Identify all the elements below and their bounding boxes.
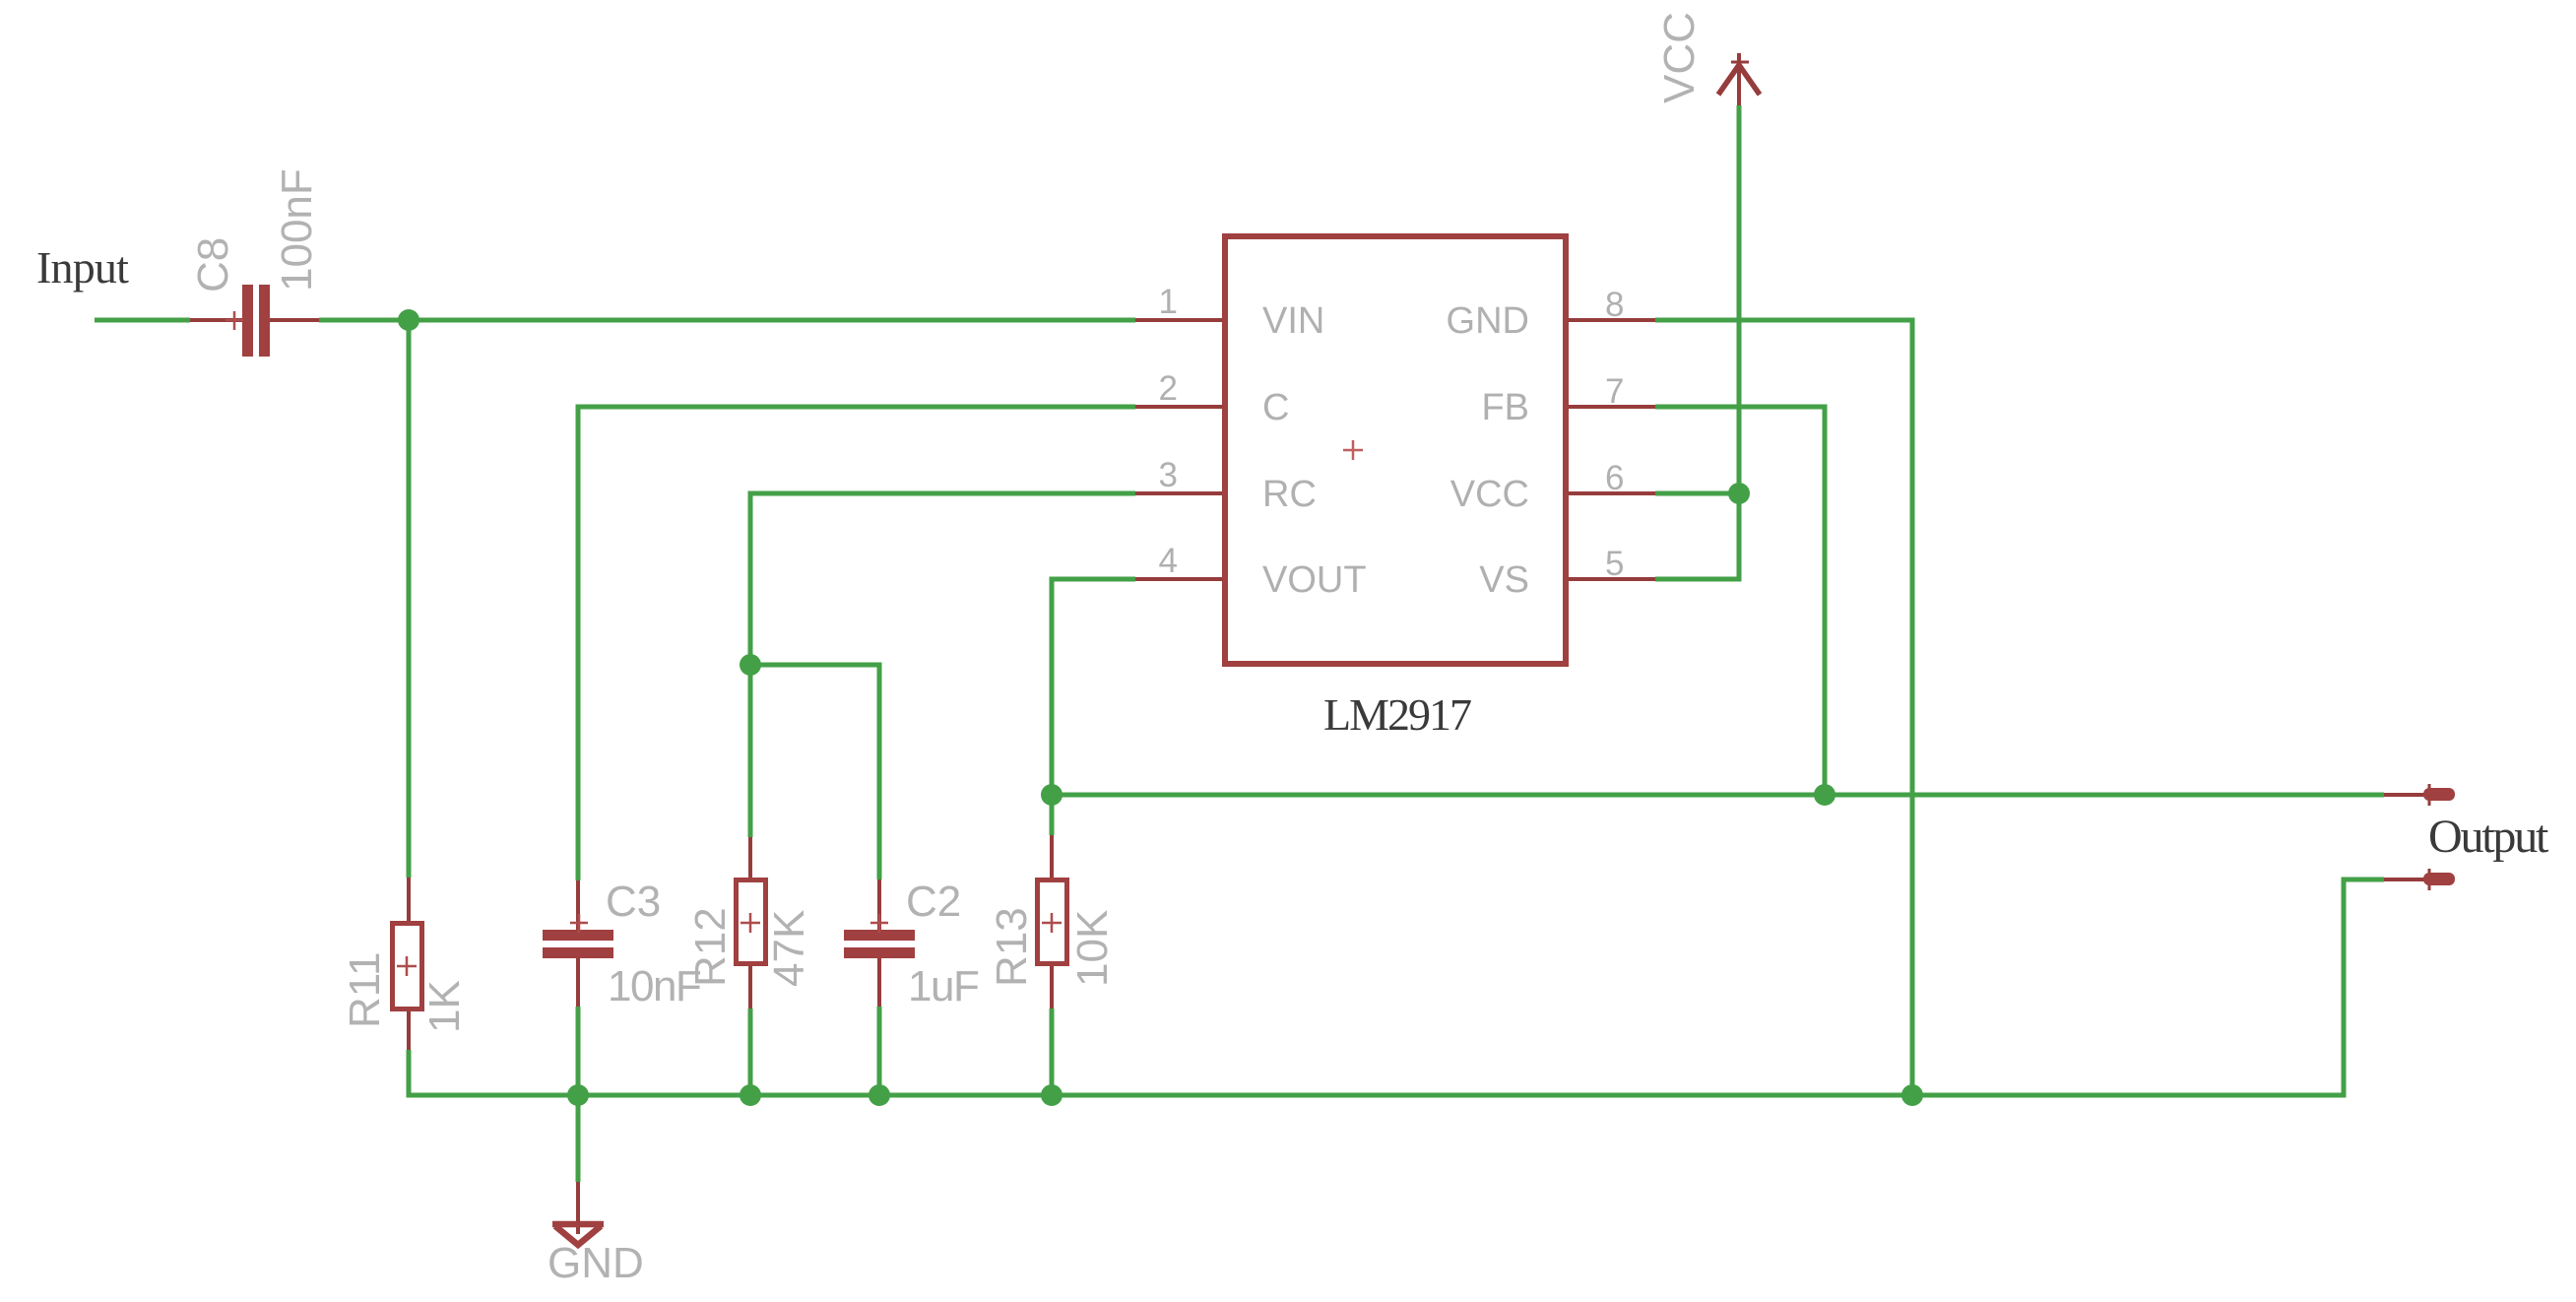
wire C8 to VIN pin1 <box>319 318 1135 323</box>
wire R13 bottom <box>1050 1009 1055 1095</box>
svg-text:C: C <box>1262 387 1289 428</box>
junction rail C3 <box>567 1084 589 1106</box>
wire C2 bottom <box>877 1007 882 1095</box>
svg-text:Input: Input <box>36 242 129 293</box>
resistor R11 <box>393 878 422 1050</box>
pin 4 <box>1135 577 1222 581</box>
pin 5 <box>1569 577 1655 581</box>
wire node A down to R11 <box>407 320 412 878</box>
junction rail C2 <box>869 1084 890 1106</box>
node VOUT junction <box>1041 784 1063 806</box>
svg-text:2: 2 <box>1159 369 1178 408</box>
svg-text:100nF: 100nF <box>273 168 321 292</box>
svg-text:10K: 10K <box>1068 910 1117 987</box>
pin 1 <box>1135 318 1222 322</box>
svg-text:RC: RC <box>1262 474 1317 515</box>
svg-text:R13: R13 <box>988 907 1036 987</box>
wire output upper line <box>1052 793 2384 798</box>
resistor R13 <box>1038 835 1067 1009</box>
terminal output lower <box>2384 869 2455 890</box>
terminal output upper <box>2384 784 2455 806</box>
wire pin8 GND right <box>1655 320 1912 1095</box>
svg-text:7: 7 <box>1605 372 1624 411</box>
svg-text:C8: C8 <box>189 237 237 293</box>
wire R11 bottom <box>409 879 2384 1095</box>
pin 2 <box>1135 405 1222 409</box>
wire pin6 VCC right <box>1655 491 1739 496</box>
op-amp U1 LM2917 box <box>1225 236 1566 664</box>
svg-text:C3: C3 <box>606 878 661 926</box>
IC origin cross <box>1343 449 1363 452</box>
wire input segment <box>95 318 190 323</box>
svg-text:5: 5 <box>1605 545 1624 583</box>
pin 6 <box>1569 491 1655 495</box>
resistor R12 <box>737 837 766 1009</box>
power VCC symbol <box>1718 53 1760 105</box>
svg-text:3: 3 <box>1159 456 1178 494</box>
svg-text:Output: Output <box>2428 811 2549 863</box>
ground <box>552 1182 604 1245</box>
wire pin5 VS right <box>1655 493 1739 579</box>
svg-text:VCC: VCC <box>1450 474 1529 515</box>
capacitor C3 <box>543 880 613 1007</box>
node FB junction <box>1814 784 1835 806</box>
svg-text:8: 8 <box>1605 286 1624 324</box>
pin 3 <box>1135 491 1222 495</box>
wire VCC stem <box>1737 105 1742 493</box>
svg-text:FB: FB <box>1481 387 1529 428</box>
svg-text:R12: R12 <box>686 907 735 987</box>
svg-text:GND: GND <box>1447 300 1529 342</box>
svg-text:VS: VS <box>1479 559 1529 601</box>
wire pin3 RC to R12 column <box>750 493 1135 837</box>
svg-text:GND: GND <box>547 1239 644 1287</box>
junction rail GND8 <box>1901 1084 1923 1106</box>
wire pin2 C to C3 column <box>578 407 1135 880</box>
wire branch node B to C2 column <box>750 665 879 879</box>
svg-text:1uF: 1uF <box>908 962 979 1010</box>
svg-text:R11: R11 <box>341 952 389 1028</box>
svg-text:4: 4 <box>1159 542 1178 580</box>
svg-text:LM2917: LM2917 <box>1323 689 1471 740</box>
wire pin7 FB right <box>1655 407 1825 795</box>
junction rail R12 <box>740 1084 761 1106</box>
wire R12 bottom <box>748 1009 753 1095</box>
pin 8 <box>1569 318 1655 322</box>
capacitor C2 <box>844 879 915 1007</box>
junction rail R13 <box>1041 1084 1063 1106</box>
node A junction <box>398 309 419 331</box>
wire C3 bottom <box>576 1007 581 1095</box>
svg-text:6: 6 <box>1605 459 1624 497</box>
svg-text:VOUT: VOUT <box>1262 559 1367 601</box>
svg-text:47K: 47K <box>765 910 813 987</box>
svg-text:1: 1 <box>1159 283 1178 321</box>
wire pin4 VOUT left <box>1052 579 1135 795</box>
node VCC junction <box>1728 483 1750 504</box>
wire R13 top <box>1050 795 1055 835</box>
wire GND stub <box>576 1095 581 1182</box>
pin 7 <box>1569 405 1655 409</box>
svg-text:1K: 1K <box>420 980 469 1033</box>
node B junction <box>740 654 761 676</box>
svg-text:VCC: VCC <box>1655 12 1704 103</box>
svg-text:C2: C2 <box>906 878 961 926</box>
capacitor C8 <box>190 285 319 357</box>
svg-text:VIN: VIN <box>1262 300 1324 342</box>
